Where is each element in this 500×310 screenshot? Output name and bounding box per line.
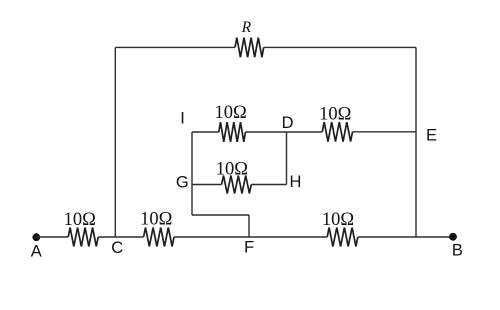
resistor 10ohm C-F [144,228,174,247]
node B terminal dot [449,233,457,241]
wire: left vertical C riser [114,47,116,237]
svg-text:F: F [244,239,254,257]
wire: D-H vertical [286,132,288,185]
resistor 10ohm D-E [322,122,352,142]
wire: I-G vertical [191,132,193,215]
svg-text:R: R [241,19,252,36]
svg-text:D: D [282,114,294,132]
node A terminal dot [32,233,40,241]
svg-text:C: C [111,239,123,257]
resistor 10ohm I-D [219,122,246,142]
svg-text:H: H [290,173,302,191]
resistor 10ohm A-C [68,228,98,247]
wire: A to first resistor [36,236,68,238]
svg-text:B: B [452,242,463,260]
svg-text:I: I [180,109,185,127]
wire: resistor to B [358,236,453,238]
svg-text:10Ω: 10Ω [319,105,351,125]
svg-text:E: E [426,126,437,144]
wire: jog horizontal G-F [192,214,249,216]
svg-text:10Ω: 10Ω [322,210,354,230]
resistor 10ohm F-B [327,228,358,247]
wire: G to resistor [192,184,222,186]
svg-text:10Ω: 10Ω [216,160,248,180]
wire: F area bottom segment [174,236,327,238]
wire: right vertical E-B riser [415,47,417,237]
wire: jog vertical down to F [248,215,250,237]
svg-text:10Ω: 10Ω [64,210,96,230]
wire: resistor to node D [246,131,287,133]
svg-text:10Ω: 10Ω [140,210,172,230]
wire: resistor to C to second resistor [98,236,143,238]
wire: top-left segment (C riser to R) [115,46,235,48]
wire: resistor to H [251,184,286,186]
wire: I to resistor [192,131,219,133]
wire: top-right segment (R to E riser) [264,46,416,48]
wire: node D to resistor [287,131,323,133]
resistor 10ohm G-H [222,176,252,194]
wire: resistor to E riser [353,131,417,133]
svg-text:10Ω: 10Ω [214,103,246,123]
resistor R [235,38,264,58]
svg-text:G: G [176,174,189,192]
svg-text:A: A [31,242,42,260]
